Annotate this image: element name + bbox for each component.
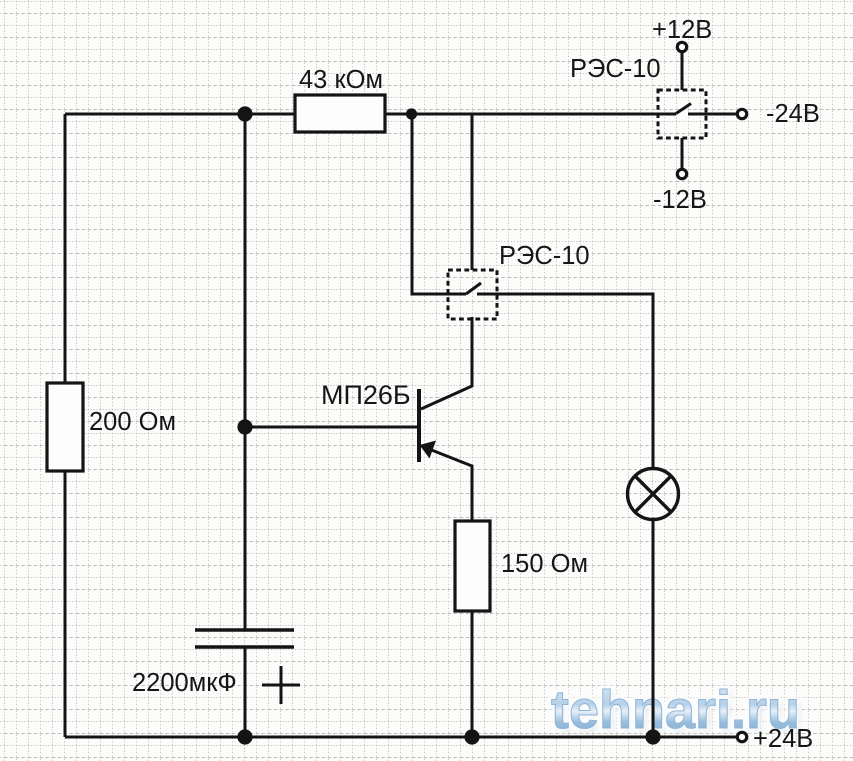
transistor Q1 МП26Б xyxy=(417,389,421,462)
svg-text:МП26Б: МП26Б xyxy=(321,380,411,410)
terminal +12V xyxy=(677,42,686,51)
wire relay K1 switch right to -24V terminal xyxy=(688,113,736,116)
svg-text:+24В: +24В xyxy=(753,725,813,753)
svg-text:200 Ом: 200 Ом xyxy=(89,408,176,436)
wire middle vertical upper xyxy=(244,114,247,629)
wire emitter to R3 xyxy=(429,449,472,521)
wire R3 bottom xyxy=(471,611,474,737)
node bottom right xyxy=(645,729,660,744)
svg-text:-24В: -24В xyxy=(766,100,820,128)
node bottom left xyxy=(237,729,252,744)
emitter arrow of Q1 xyxy=(420,441,437,459)
svg-text:+12В: +12В xyxy=(652,16,712,44)
terminal -24V xyxy=(737,109,746,118)
relay K2 switch contact xyxy=(448,283,481,294)
svg-text:РЭС-10: РЭС-10 xyxy=(570,55,661,83)
svg-text:РЭС-10: РЭС-10 xyxy=(499,242,590,270)
wire lamp bottom xyxy=(652,519,655,737)
resistor R2 200 Ohm xyxy=(47,383,83,471)
wire node A down and into relay K2 xyxy=(412,114,448,294)
svg-text:150 Ом: 150 Ом xyxy=(501,550,588,578)
node at R1 left junction xyxy=(237,106,252,121)
wire coil feed to relay K2 top xyxy=(471,114,474,270)
node at base junction xyxy=(237,419,252,434)
relay K1 switch contact xyxy=(658,104,691,115)
capacitor C1 2200uF plates xyxy=(195,630,294,647)
resistor R1 43 kOhm xyxy=(295,95,385,132)
wire relay K1 coil to -12V terminal xyxy=(681,138,684,168)
wire +12V terminal to relay K1 coil xyxy=(681,53,684,90)
wire middle vertical lower xyxy=(244,648,247,737)
wire left vertical upper xyxy=(64,114,67,383)
node bottom middle xyxy=(464,729,479,744)
resistor R3 150 Ohm xyxy=(455,521,490,611)
relay K1 dashed box (РЭС-10 top) xyxy=(658,90,706,138)
wire top horizontal left of R1 xyxy=(65,113,295,116)
wire relay K2 output to lamp xyxy=(477,294,653,469)
svg-text:43 кОм: 43 кОм xyxy=(299,66,383,94)
wire base of Q1 xyxy=(245,426,419,429)
wire top horizontal right of R1 xyxy=(385,113,658,116)
wire bottom horizontal xyxy=(65,736,736,739)
lamp HL1 xyxy=(628,469,679,520)
terminal -12V xyxy=(677,169,686,178)
node at R1 right junction xyxy=(406,108,417,119)
wire left vertical lower xyxy=(64,471,67,737)
watermark tehnari.ru xyxy=(551,680,803,743)
relay K2 dashed box (РЭС-10 middle) xyxy=(448,270,497,319)
wire collector of Q1 xyxy=(421,317,472,409)
capacitor polarity plus sign xyxy=(262,666,300,704)
svg-text:-12В: -12В xyxy=(653,186,707,214)
terminal +24V xyxy=(737,732,746,741)
svg-text:2200мкФ: 2200мкФ xyxy=(132,669,237,697)
